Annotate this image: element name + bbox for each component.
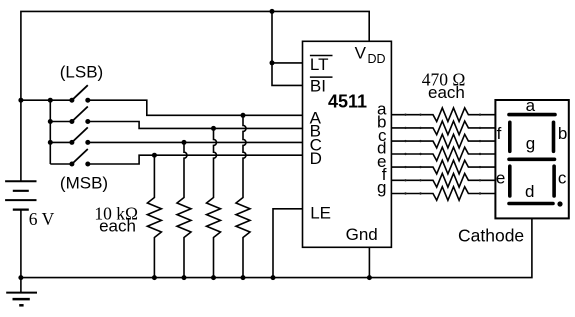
svg-text:6 V: 6 V <box>29 209 55 229</box>
svg-text:DD: DD <box>368 52 386 66</box>
svg-text:10 kΩ: 10 kΩ <box>94 204 138 224</box>
svg-text:e: e <box>496 169 505 188</box>
svg-text:c: c <box>558 169 567 188</box>
svg-text:Gnd: Gnd <box>346 225 378 244</box>
svg-text:LT: LT <box>310 55 329 74</box>
svg-text:d: d <box>525 182 534 201</box>
svg-text:470 Ω: 470 Ω <box>422 69 466 89</box>
svg-text:V: V <box>355 44 367 63</box>
svg-text:g: g <box>377 178 386 197</box>
svg-text:f: f <box>497 124 502 143</box>
svg-text:a: a <box>526 96 536 115</box>
svg-text:b: b <box>558 124 567 143</box>
svg-text:(LSB): (LSB) <box>60 63 103 82</box>
svg-text:D: D <box>310 149 322 168</box>
svg-text:LE: LE <box>310 204 331 223</box>
svg-text:Cathode: Cathode <box>458 225 524 245</box>
svg-text:g: g <box>526 134 535 153</box>
svg-text:4511: 4511 <box>328 92 367 112</box>
svg-text:(MSB): (MSB) <box>60 174 108 193</box>
svg-text:BI: BI <box>310 77 326 96</box>
